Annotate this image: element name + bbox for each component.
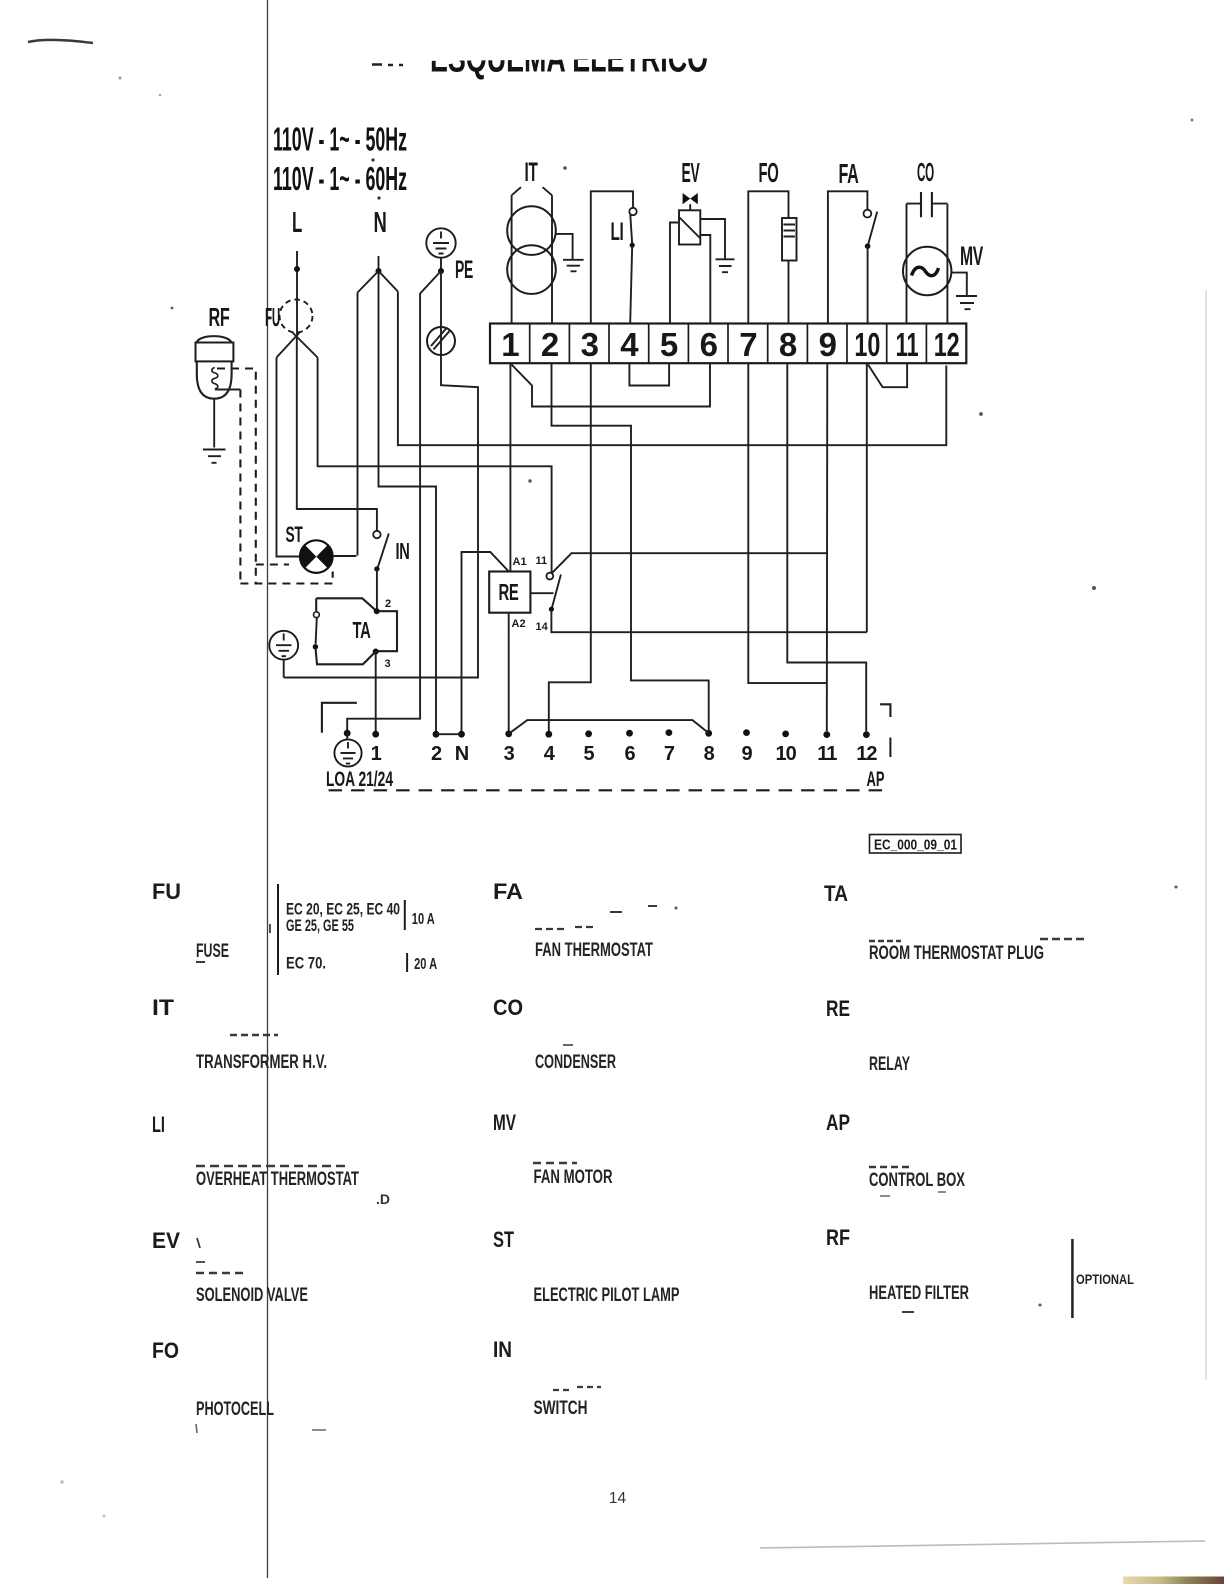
room thermostat plug TA label — [353, 617, 371, 643]
svg-text:12: 12 — [856, 743, 877, 765]
svg-text:RELAY: RELAY — [869, 1054, 910, 1075]
svg-text:EC_000_09_01: EC_000_09_01 — [874, 837, 957, 854]
wire L right branch to relay contact 11 — [318, 358, 552, 573]
ground for EV — [716, 259, 735, 272]
page number — [609, 1490, 627, 1507]
svg-text:IT: IT — [525, 157, 539, 187]
svg-text:OVERHEAT THERMOSTAT: OVERHEAT THERMOSTAT — [196, 1169, 359, 1190]
label FU — [265, 302, 280, 332]
svg-text:CO: CO — [493, 995, 523, 1020]
svg-text:14: 14 — [536, 621, 549, 633]
wire pilot lamp to N branch — [333, 555, 357, 557]
wire RF to ground — [213, 399, 215, 448]
svg-text:EV: EV — [152, 1228, 180, 1253]
svg-text:LI: LI — [152, 1112, 165, 1137]
svg-text:EC 70.: EC 70. — [286, 955, 326, 973]
svg-text:10: 10 — [775, 743, 796, 765]
svg-text:IT: IT — [152, 995, 175, 1020]
svg-text:A2: A2 — [512, 618, 526, 630]
page fold line — [267, 0, 269, 1578]
relay contact label 14 — [536, 621, 549, 633]
PE earth-in-circle symbol — [426, 228, 455, 257]
svg-text:MV: MV — [493, 1110, 516, 1135]
svg-text:FO: FO — [152, 1338, 179, 1363]
condenser CO — [907, 192, 948, 324]
wire terminal 3 down to AP terminal 4 — [549, 363, 591, 731]
svg-text:110V - 1~ - 60Hz: 110V - 1~ - 60Hz — [273, 160, 407, 197]
switch IN label — [396, 538, 410, 564]
transformer IT label — [525, 157, 539, 187]
overheat thermostat LI label — [611, 218, 624, 246]
wire N left branch to pilot lamp — [357, 293, 359, 556]
svg-text:IN: IN — [493, 1337, 512, 1362]
screw-head circle on PE wire — [427, 327, 455, 355]
svg-text:6: 6 — [700, 326, 718, 363]
svg-text:ST: ST — [286, 522, 304, 547]
faint bottom line — [760, 1541, 1205, 1548]
earth-in-circle symbol at TA — [269, 631, 298, 660]
terminal block 1-12 — [490, 324, 966, 364]
fan motor MV — [903, 247, 951, 295]
svg-text:FAN MOTOR: FAN MOTOR — [534, 1167, 613, 1188]
svg-text:FAN THERMOSTAT: FAN THERMOSTAT — [535, 940, 653, 961]
svg-text:RE: RE — [499, 579, 519, 605]
svg-text:10: 10 — [854, 326, 880, 363]
AP earth terminal — [334, 730, 361, 767]
drawing number box EC_000_09_01 — [870, 835, 962, 854]
svg-text:2: 2 — [385, 598, 391, 610]
AP control box frame — [322, 703, 891, 791]
photocell FO — [748, 191, 796, 323]
fan thermostat FA label — [839, 158, 859, 189]
relay coil label A2 — [512, 618, 526, 630]
wire L branch split X — [277, 333, 318, 358]
svg-text:11: 11 — [817, 743, 837, 765]
svg-text:CO: CO — [917, 157, 934, 187]
svg-text:N: N — [374, 207, 387, 239]
svg-text:TA: TA — [353, 617, 371, 643]
wire PE centre branch to TA earth — [284, 271, 478, 678]
svg-text:2: 2 — [431, 743, 442, 765]
svg-text:SWITCH: SWITCH — [534, 1398, 588, 1419]
wire link AP 3 to AP 8 — [509, 720, 709, 734]
wire link terminal 10 to terminal 11 — [868, 363, 907, 387]
svg-text:7: 7 — [664, 743, 675, 765]
svg-text:FU: FU — [152, 879, 181, 904]
svg-text:ELECTRIC PILOT LAMP: ELECTRIC PILOT LAMP — [534, 1285, 680, 1306]
bottom-right colour strip — [1123, 1577, 1224, 1584]
svg-text:20 A: 20 A — [414, 956, 437, 973]
relay contact label 11 — [536, 555, 548, 567]
svg-text:4: 4 — [620, 326, 639, 363]
wire N lead-in — [376, 256, 382, 274]
legend column 2 — [493, 879, 680, 1419]
dashed optional wiring from RF — [215, 369, 333, 584]
svg-text:A1: A1 — [513, 556, 527, 568]
label LOA 21/24 — [326, 768, 393, 791]
svg-text:N: N — [455, 743, 469, 765]
svg-text:EV: EV — [682, 157, 700, 188]
svg-text:1: 1 — [371, 743, 382, 765]
svg-text:FUSE: FUSE — [196, 941, 229, 962]
svg-text:6: 6 — [624, 743, 635, 765]
svg-text:12: 12 — [934, 326, 960, 363]
wire L centre branch to switch IN — [297, 338, 377, 531]
AP terminal number labels — [371, 743, 878, 765]
svg-text:.D: .D — [376, 1191, 390, 1207]
legend column 1 — [152, 879, 437, 1420]
photocell FO label — [759, 157, 779, 188]
title ESQUEMA ELETRICO (top-cropped by scan) — [372, 0, 745, 81]
overheat thermostat LI switch — [591, 191, 637, 323]
svg-text:FA: FA — [493, 879, 523, 904]
svg-text:LI: LI — [611, 218, 624, 246]
svg-text:L: L — [292, 207, 302, 239]
svg-text:AP: AP — [867, 768, 885, 791]
voltage ratings — [273, 121, 407, 198]
solenoid valve EV — [670, 193, 725, 324]
wire L left branch to pilot lamp — [277, 358, 301, 557]
svg-text:RF: RF — [209, 302, 230, 332]
svg-text:8: 8 — [704, 743, 715, 765]
wire terminal 7 to relay net — [748, 363, 827, 683]
solenoid valve EV label — [682, 157, 700, 188]
svg-text:CONDENSER: CONDENSER — [535, 1052, 616, 1073]
.D artifact text — [376, 1191, 390, 1207]
wire N right branch to terminal 12 — [398, 292, 946, 446]
svg-text:ST: ST — [493, 1227, 514, 1252]
scan artifacts — [28, 40, 1086, 1433]
svg-text:LOA 21/24: LOA 21/24 — [326, 768, 393, 791]
svg-text:FU: FU — [265, 302, 280, 332]
wire terminal 8 down to AP terminal 12 — [787, 363, 866, 731]
svg-text:PE: PE — [455, 256, 473, 284]
svg-text:8: 8 — [779, 326, 797, 363]
wire terminal 9 down to AP terminal 11 — [826, 363, 829, 731]
label AP — [867, 768, 885, 791]
wire relay A1 to AP terminal N — [462, 552, 509, 731]
svg-text:PHOTOCELL: PHOTOCELL — [196, 1399, 274, 1420]
relay coil label A1 — [513, 556, 527, 568]
wire terminal 2 down to AP terminal 8 — [552, 363, 709, 730]
svg-text:11: 11 — [896, 326, 919, 363]
node N label — [374, 207, 387, 239]
svg-text:GE 25, GE 55: GE 25, GE 55 — [286, 917, 354, 935]
AP terminal dots 1-12 — [372, 729, 869, 738]
node L label — [292, 207, 302, 239]
svg-text:MV: MV — [960, 241, 983, 271]
svg-text:ROOM THERMOSTAT PLUG: ROOM THERMOSTAT PLUG — [869, 943, 1044, 964]
svg-text:EC 20, EC 25, EC 40: EC 20, EC 25, EC 40 — [286, 901, 400, 919]
svg-text:OPTIONAL: OPTIONAL — [1076, 1271, 1134, 1287]
svg-text:9: 9 — [741, 743, 752, 765]
wire terminal 1 down to relay coil A1 — [509, 363, 511, 571]
wire link AP 2 to AP N — [436, 733, 462, 735]
wire link terminal 4 to terminal 5 — [629, 363, 669, 385]
wire relay A2 to AP terminal 3 — [508, 613, 510, 731]
condenser CO label — [917, 157, 934, 187]
wire TA terminal 3 down to AP terminal 1 — [375, 652, 377, 732]
svg-text:HEATED FILTER: HEATED FILTER — [869, 1283, 969, 1304]
svg-text:SOLENOID VALVE: SOLENOID VALVE — [196, 1285, 308, 1306]
svg-text:5: 5 — [660, 326, 678, 363]
wire PE left branch to AP earth — [347, 271, 441, 731]
wire L lead-in — [294, 251, 300, 338]
svg-text:1: 1 — [501, 326, 519, 363]
relay contact 11-14 — [530, 553, 866, 632]
heated filter RF label — [209, 302, 230, 332]
pilot lamp ST — [300, 540, 333, 573]
node PE label — [455, 256, 473, 284]
ground for MV — [951, 273, 977, 310]
svg-text:110V - 1~ - 50Hz: 110V - 1~ - 50Hz — [273, 121, 407, 158]
fan motor MV label — [960, 241, 983, 271]
wire link terminal 1 to terminal 6 — [512, 363, 711, 406]
ground for IT — [556, 234, 584, 271]
transformer IT — [507, 187, 556, 323]
svg-text:3: 3 — [385, 658, 391, 670]
heated filter RF — [196, 336, 234, 399]
svg-text:TRANSFORMER H.V.: TRANSFORMER H.V. — [196, 1052, 327, 1073]
fan thermostat FA switch — [828, 191, 877, 323]
svg-text:3: 3 — [581, 326, 599, 363]
svg-text:RF: RF — [826, 1225, 850, 1250]
switch IN — [373, 531, 389, 609]
ground for RF — [203, 450, 226, 463]
svg-text:AP: AP — [826, 1110, 850, 1135]
room thermostat plug TA — [313, 598, 397, 670]
svg-text:9: 9 — [819, 326, 837, 363]
pilot lamp ST label — [286, 522, 304, 547]
svg-text:10 A: 10 A — [412, 911, 435, 928]
wire N branch split — [358, 271, 398, 293]
svg-text:2: 2 — [541, 326, 559, 363]
svg-text:11: 11 — [536, 555, 548, 567]
wire N centre branch to AP terminal 2 — [379, 271, 437, 731]
wire PE lead — [438, 258, 444, 274]
svg-text:TA: TA — [824, 881, 848, 906]
svg-text:14: 14 — [609, 1490, 627, 1507]
svg-text:3: 3 — [504, 743, 515, 765]
wire terminal 10 down to relay contact 14 — [866, 363, 868, 632]
legend column 3 — [824, 881, 1134, 1318]
svg-text:5: 5 — [584, 743, 595, 765]
svg-text:RE: RE — [826, 996, 850, 1021]
svg-text:FA: FA — [839, 158, 859, 189]
relay RE coil box — [489, 572, 530, 613]
svg-text:IN: IN — [396, 538, 410, 564]
fuse FU dashed circle — [280, 300, 313, 333]
svg-text:CONTROL BOX: CONTROL BOX — [869, 1170, 965, 1191]
svg-text:7: 7 — [739, 326, 757, 363]
svg-text:FO: FO — [759, 157, 779, 188]
